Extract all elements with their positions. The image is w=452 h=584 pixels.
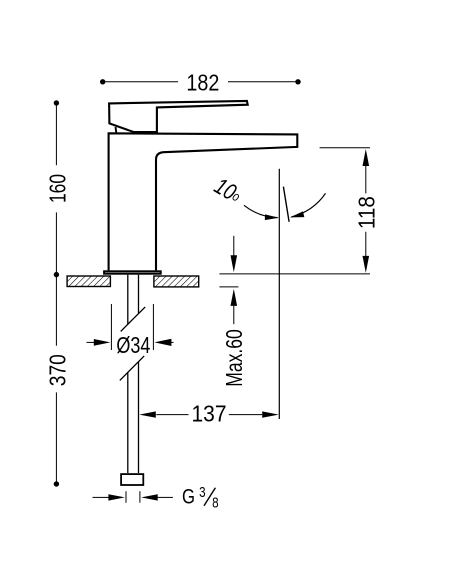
svg-text:G: G <box>182 486 195 509</box>
dimension G3/8 extension lines <box>126 491 140 503</box>
dimension 137 line <box>156 414 262 416</box>
Max.60 lower reference line <box>219 286 238 288</box>
pipe break slash lower <box>120 356 144 381</box>
countertop right hatched section <box>154 276 199 287</box>
svg-text:8: 8 <box>212 494 218 511</box>
dimension 160 line <box>55 103 57 275</box>
dimension Ø34 arrows and line <box>87 341 174 343</box>
countertop left hatched section <box>67 276 110 287</box>
G3/8 connector <box>121 474 143 485</box>
spout tip extension line <box>320 147 370 149</box>
base plate <box>104 271 161 273</box>
angle arc right with arrow <box>291 193 325 217</box>
svg-text:160: 160 <box>44 174 70 203</box>
svg-text:182: 182 <box>186 70 219 96</box>
faucet lever <box>109 101 248 132</box>
svg-text:118: 118 <box>353 196 379 229</box>
faucet body and spout <box>109 133 298 270</box>
dimension 182 line <box>103 81 298 83</box>
dimension 370 line <box>55 275 57 484</box>
supply pipe right edge <box>138 275 140 473</box>
countertop extension line <box>219 273 370 275</box>
dimension 182 end dots <box>100 79 105 84</box>
supply pipe left edge <box>127 275 129 473</box>
dimension 370 end dot <box>54 481 59 486</box>
dimension G3/8 arrows and lines <box>93 496 173 498</box>
dimension 118 line <box>365 166 367 256</box>
10 degree tilted line <box>283 187 289 222</box>
lever underside detail line <box>115 127 118 133</box>
vertical reference extension line <box>278 169 280 419</box>
angle arc left with arrow <box>244 205 278 217</box>
svg-text:137: 137 <box>192 400 227 426</box>
svg-text:Max.60: Max.60 <box>221 329 247 387</box>
pipe break slash upper <box>121 307 146 332</box>
svg-text:370: 370 <box>44 354 70 386</box>
dimension 160 end dots <box>54 100 59 105</box>
svg-text:3: 3 <box>199 484 205 501</box>
dimension Ø34 extension lines <box>111 304 153 350</box>
svg-text:Ø34: Ø34 <box>116 332 150 358</box>
dimension Max.60 lower arrow <box>231 289 238 306</box>
dimension Max.60 upper arrow <box>233 236 235 256</box>
